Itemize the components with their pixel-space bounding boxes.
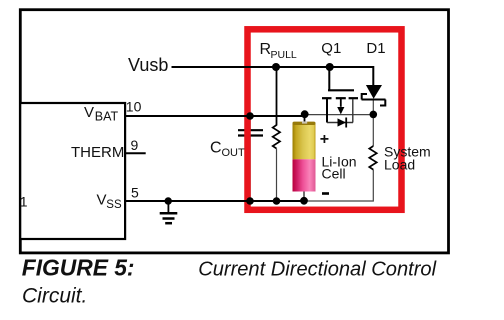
svg-text:Q1: Q1 [321, 40, 341, 57]
pin 9 stub [125, 152, 146, 154]
svg-text:Current Directional Control: Current Directional Control [198, 259, 436, 281]
svg-text:SS: SS [106, 199, 122, 211]
svg-text:Load: Load [384, 156, 415, 172]
battery cell top lead [304, 114, 306, 123]
figure border frame [20, 10, 448, 253]
wire VBAT pin10 [125, 115, 306, 117]
IC charger box [20, 103, 125, 239]
transistor Q1 gate bar [328, 89, 354, 91]
ground symbol [160, 201, 178, 223]
svg-text:OUT: OUT [222, 147, 246, 159]
wire VSS ground rail [125, 200, 306, 202]
svg-text:C: C [210, 140, 222, 157]
resistor RPULL bottom lead [276, 149, 278, 201]
junction ground tap node [165, 197, 172, 204]
svg-text:5: 5 [131, 185, 139, 201]
transistor Q1 body arrow [340, 99, 342, 107]
svg-text:R: R [260, 41, 272, 58]
svg-text:Cell: Cell [322, 166, 346, 182]
svg-text:D1: D1 [366, 40, 385, 57]
wire top rail to D1 [277, 66, 373, 68]
svg-text:V: V [97, 192, 107, 209]
battery top cap [293, 122, 316, 125]
label minus [322, 192, 329, 195]
svg-text:Circuit.: Circuit. [22, 285, 87, 308]
resistor RPULL zigzag [273, 125, 280, 149]
wire ground rail thin to system load [305, 170, 373, 201]
capacitor COUT plates (under red box) [238, 130, 263, 135]
resistor RPULL top lead [276, 67, 278, 126]
junction battery plus node [301, 110, 309, 118]
svg-text:THERM: THERM [71, 144, 124, 161]
wire Q1 gate drop [328, 66, 330, 91]
svg-text:1: 1 [20, 194, 28, 210]
resistor system load zigzag [369, 146, 376, 170]
svg-text:+: + [320, 131, 329, 148]
diode D1 bottom lead [372, 101, 374, 147]
transistor Q1 channel segments [322, 97, 358, 99]
junction COUT bottom node [246, 197, 254, 205]
diode D1 triangle [366, 85, 382, 99]
svg-text:Vusb: Vusb [128, 55, 168, 75]
capacitor COUT leads (under red box) [249, 116, 251, 201]
svg-text:9: 9 [131, 137, 139, 153]
junction battery minus node [300, 197, 308, 205]
junction Q1 gate node [326, 63, 334, 71]
junction Vusb/RPULL node [272, 63, 280, 71]
transistor Q1 body diode [338, 118, 347, 126]
svg-text:BAT: BAT [95, 110, 119, 124]
svg-text:PULL: PULL [271, 49, 297, 61]
junction D1 cathode node [370, 111, 378, 119]
svg-text:V: V [84, 104, 94, 121]
transistor Q1 body diode line [327, 122, 353, 124]
svg-text:FIGURE 5:: FIGURE 5: [22, 255, 135, 281]
transistor Q1 right (source) lead [352, 99, 354, 123]
battery cell bottom lead [303, 191, 305, 201]
wire D1 drop [372, 66, 374, 86]
red highlight box [248, 29, 402, 210]
diode D1 schottky bar [362, 94, 386, 106]
junction RPULL bottom node [273, 197, 281, 205]
svg-text:10: 10 [126, 99, 142, 115]
wire battery plus to D1 node [305, 114, 373, 116]
junction COUT top node [246, 112, 254, 120]
wire Vusb to RPULL node [172, 66, 278, 68]
transistor Q1 left (drain) lead [326, 99, 328, 123]
